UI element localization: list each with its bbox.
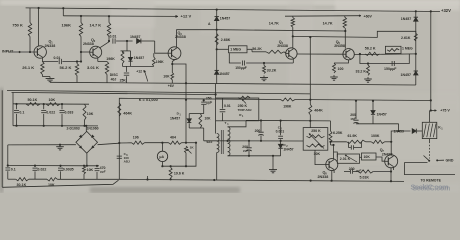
svg-text:2-D1003: 2-D1003 [67, 127, 80, 131]
svg-text:19.6 K: 19.6 K [174, 172, 185, 176]
svg-text:10K: 10K [205, 117, 212, 121]
svg-text:150μμF: 150μμF [384, 67, 397, 71]
svg-text:2.61K: 2.61K [401, 36, 411, 40]
svg-text:200: 200 [255, 129, 261, 133]
svg-text:+12 V: +12 V [136, 70, 146, 74]
svg-text:100K: 100K [371, 134, 380, 138]
svg-text:+12 V: +12 V [181, 14, 192, 19]
svg-text:2N338: 2N338 [45, 44, 56, 48]
svg-text:ADJ: ADJ [124, 160, 130, 164]
svg-text:2N358: 2N358 [334, 44, 345, 48]
svg-text:1N457: 1N457 [377, 112, 387, 116]
svg-text:0.022: 0.022 [38, 168, 47, 172]
svg-text:2.68K: 2.68K [221, 38, 231, 42]
svg-text:1N457: 1N457 [401, 17, 411, 21]
svg-text:SeekIC.com: SeekIC.com [412, 183, 450, 192]
svg-text:10K: 10K [314, 152, 321, 156]
svg-text:μμF: μμF [243, 149, 249, 153]
svg-text:1 MEG: 1 MEG [402, 47, 413, 51]
svg-text:10K: 10K [87, 112, 94, 116]
svg-text:196K: 196K [156, 60, 165, 64]
svg-text:33.2 K: 33.2 K [356, 70, 367, 74]
svg-text:2N338: 2N338 [318, 175, 329, 179]
svg-text:2.01 K: 2.01 K [340, 157, 351, 161]
svg-text:0.022: 0.022 [46, 111, 55, 115]
svg-text:1N459: 1N459 [394, 129, 404, 133]
svg-text:μA: μA [159, 155, 164, 159]
svg-text:+32V: +32V [441, 8, 451, 13]
svg-text:0.001: 0.001 [276, 130, 285, 134]
svg-text:1 MEG: 1 MEG [230, 48, 241, 52]
svg-text:5.01K: 5.01K [360, 175, 370, 179]
svg-text:1N1060: 1N1060 [87, 127, 99, 131]
svg-text:3.01 K: 3.01 K [87, 65, 99, 70]
svg-text:196K: 196K [62, 22, 72, 27]
svg-text:0.1: 0.1 [11, 168, 16, 172]
svg-text:464: 464 [170, 135, 176, 139]
svg-text:μμF: μμF [206, 101, 212, 105]
svg-text:10K: 10K [364, 155, 371, 159]
svg-text:25K: 25K [120, 78, 127, 82]
svg-text:+60V: +60V [364, 15, 373, 19]
svg-text:56.2 K: 56.2 K [365, 46, 376, 50]
svg-text:10K: 10K [48, 183, 55, 187]
svg-text:2N338: 2N338 [83, 42, 94, 46]
svg-text:K = X1,000: K = X1,000 [139, 98, 158, 102]
svg-text:μμF: μμF [351, 117, 357, 121]
svg-text:50.1K: 50.1K [28, 98, 38, 102]
svg-text:6.25K: 6.25K [333, 131, 343, 135]
svg-text:100: 100 [338, 67, 344, 71]
svg-text:0.1: 0.1 [19, 110, 24, 114]
svg-text:T: T [225, 121, 227, 125]
svg-text:TRIP ADJ: TRIP ADJ [238, 108, 252, 112]
svg-text:1N457: 1N457 [134, 56, 144, 60]
svg-text:μμF: μμF [100, 170, 106, 174]
svg-text:2N338: 2N338 [277, 44, 288, 48]
svg-text:56.2 K: 56.2 K [60, 65, 72, 70]
svg-text:196: 196 [133, 135, 139, 139]
svg-text:40J: 40J [111, 78, 117, 82]
svg-text:0.01: 0.01 [110, 35, 117, 39]
svg-text:+75 V: +75 V [440, 108, 450, 112]
svg-text:61.9K: 61.9K [348, 134, 358, 138]
svg-text:33.2K: 33.2K [267, 68, 277, 72]
svg-text:56.2K: 56.2K [252, 47, 262, 51]
svg-text:464K: 464K [123, 112, 132, 116]
svg-text:1N457: 1N457 [130, 35, 140, 39]
svg-text:0.01: 0.01 [54, 56, 61, 60]
svg-text:150μμF: 150μμF [235, 66, 247, 70]
svg-text:1N457: 1N457 [283, 147, 293, 151]
svg-text:DISC: DISC [110, 73, 119, 77]
svg-text:14.7K: 14.7K [269, 22, 279, 26]
svg-text:0.01: 0.01 [224, 104, 231, 108]
svg-text:196K: 196K [106, 57, 115, 61]
svg-text:10K: 10K [163, 75, 170, 79]
svg-text:250 K: 250 K [311, 129, 321, 133]
svg-text:1N457: 1N457 [220, 17, 230, 21]
svg-text:750 K: 750 K [12, 22, 23, 27]
svg-text:200: 200 [349, 167, 355, 171]
svg-text:14.7K: 14.7K [323, 22, 333, 26]
svg-text:0.033: 0.033 [65, 111, 74, 115]
svg-text:1N457: 1N457 [401, 73, 411, 77]
svg-text:196K: 196K [283, 105, 292, 109]
svg-text:1N457: 1N457 [219, 72, 229, 76]
svg-text:26.1 K: 26.1 K [22, 65, 34, 70]
svg-text:1N457: 1N457 [170, 117, 180, 121]
svg-text:GND: GND [446, 158, 454, 162]
svg-text:10K: 10K [87, 168, 94, 172]
svg-text:14.7 K: 14.7 K [90, 22, 102, 27]
svg-text:30.1K: 30.1K [17, 183, 27, 187]
svg-text:0.0035: 0.0035 [63, 168, 74, 172]
svg-text:10K: 10K [49, 98, 56, 102]
svg-text:+6V: +6V [168, 84, 175, 88]
svg-text:464K: 464K [314, 108, 323, 112]
